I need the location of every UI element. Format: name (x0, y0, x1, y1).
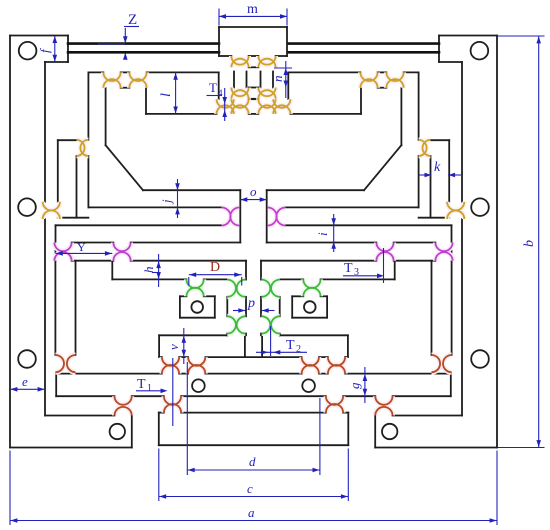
cluster row1 bottom edge (249, 66, 259, 68)
plate left edge (145, 88, 147, 114)
platform top seg3 (343, 412, 348, 414)
hinge beamQ-1 upper arc (mirror) (435, 243, 452, 252)
pad top edge seg2 (204, 295, 215, 297)
rail top line (mirror) (288, 42, 439, 45)
hinge beamQ-1 lower arc (54, 252, 71, 261)
lever inner edge (mirror) (400, 88, 402, 145)
hanger bar left edge (mirror) (451, 261, 453, 355)
cluster col-L hinge upper arc (mirror) (258, 99, 275, 108)
svg-text:o: o (250, 184, 257, 199)
lever diagonal edge (106, 145, 143, 190)
bar R left edge (111, 261, 113, 280)
svg-text:b: b (522, 240, 537, 247)
lever top edge seg3 (147, 71, 219, 73)
svg-text:3: 3 (354, 267, 359, 278)
band bottom seg4 (343, 395, 375, 397)
svg-text:l: l (159, 93, 174, 97)
frame top edge (10, 35, 68, 37)
svg-text:a: a (248, 505, 255, 520)
pad left edge (179, 296, 181, 317)
dimension c line (159, 496, 348, 498)
link2 right edge stub (245, 334, 247, 336)
dimension k line left (419, 174, 432, 176)
input block top edge (219, 26, 287, 28)
hinge slot-end arc b (230, 208, 239, 226)
lever top edge seg2 (121, 71, 130, 73)
svg-text:v: v (166, 344, 181, 350)
bar B1 top edge (mirror) (431, 139, 450, 141)
lever left edge lower (mirror) (418, 156, 420, 208)
svg-text:i: i (315, 232, 330, 236)
beam Q bottom seg1 (mirror) (394, 260, 436, 262)
platform left edge (158, 413, 160, 446)
wall inner edge upper (44, 62, 46, 202)
label T4 leader (224, 88, 226, 121)
clamp block right edge (67, 36, 69, 63)
cluster col-L hinge upper arc (mirror) (258, 56, 275, 65)
dimension Z arrow upper (124, 28, 126, 42)
corner block top edge (45, 415, 115, 417)
hinge lever-top1 upper arc (103, 72, 120, 81)
hinge pad upper arc (187, 279, 204, 288)
cluster col-L hinge lower arc (mirror) (258, 90, 275, 99)
svg-text:n: n (270, 76, 285, 83)
input block bottom seg1 (219, 55, 231, 57)
jaw arm top edge (143, 189, 240, 191)
hinge link2-top arc a (mirror) (271, 280, 280, 297)
svg-text:m: m (247, 2, 258, 17)
hinge S2-1 upper arc (mirror) (328, 357, 345, 366)
tab S1 right edge (mirror) (261, 335, 263, 357)
dimension o line (240, 199, 266, 201)
tab S1 top edge (159, 334, 227, 336)
hinge S2-1 lower arc (162, 365, 179, 374)
hinge S2-2 upper arc (mirror) (302, 357, 319, 366)
hinge T4 upper arc (mirror) (273, 99, 290, 108)
beam Q bottom seg2 (131, 260, 246, 262)
cluster col-L hinge lower arc (231, 59, 248, 68)
pad top edge seg1 (180, 295, 187, 297)
dimension c ext right (347, 449, 349, 502)
svg-text:T: T (344, 261, 353, 276)
hinge link2-top arc a (227, 280, 236, 297)
plate left edge (mirror) (360, 88, 362, 114)
cluster col-L hinge upper arc (231, 99, 248, 108)
svg-text:T: T (286, 338, 295, 353)
mounting hole lower (18, 350, 36, 368)
input block left edge (218, 27, 220, 56)
bar R bottom seg2 (204, 278, 228, 280)
svg-text:2: 2 (296, 344, 301, 355)
link2 right edge mid (mirror) (260, 297, 262, 317)
hinge slot-end arc a (222, 208, 231, 226)
corner block top edge (mirror) (393, 415, 463, 417)
dimension m ext left (218, 9, 220, 26)
tab S1 left edge (158, 335, 160, 357)
beam P bottom seg2 (131, 242, 241, 244)
svg-text:T: T (137, 377, 146, 392)
hinge lever-top1 lower arc (103, 79, 120, 88)
hinge lever-top2 lower arc (mirror) (360, 79, 377, 88)
hinge hanger arc a (55, 355, 64, 372)
beam P bottom seg2 (mirror) (267, 242, 377, 244)
pad top edge seg1 (mirror) (321, 295, 328, 297)
cluster link edge (260, 72, 262, 88)
svg-text:D: D (210, 260, 220, 275)
input block right edge (286, 27, 288, 56)
band top seg2 (179, 373, 188, 375)
center block right edge (mirror) (266, 190, 268, 242)
cluster bottom-bar top edge (249, 98, 259, 100)
hinge hanger arc b (67, 355, 76, 372)
label T2 leader (270, 326, 272, 356)
hinge B1-lever arc a (77, 140, 85, 156)
mounting hole lower (mirror) (471, 350, 489, 368)
beam P bottom seg1 (mirror) (394, 242, 436, 244)
mounting hole corner (110, 424, 125, 439)
hinge lever-top1 lower arc (mirror) (386, 79, 403, 88)
wall inner edge upper (mirror) (461, 62, 463, 202)
hinge T4 lower arc (mirror) (273, 105, 290, 114)
frame bottom edge (mirror) (375, 447, 497, 449)
link2 left edge mid (mirror) (279, 297, 281, 317)
cluster col-L hinge lower arc (231, 105, 248, 114)
corner block right edge (131, 416, 133, 448)
pad bottom edge (mirror) (292, 317, 327, 319)
hinge beamQ-2 upper arc (113, 243, 130, 252)
hinge beamQ-2 upper arc (mirror) (376, 243, 393, 252)
hinge block-band upper arc (115, 396, 132, 405)
hinge beamQ-2 lower arc (113, 252, 130, 261)
svg-text:Z: Z (128, 12, 137, 28)
dimension a ext right (496, 451, 498, 526)
dimension d ext right (319, 398, 321, 475)
hinge block-band upper arc (mirror) (375, 396, 392, 405)
hinge band-platform lower arc (mirror) (326, 404, 343, 413)
frame outer wall (mirror) (496, 36, 498, 448)
hinge B1-lever arc a (mirror) (423, 140, 431, 156)
lever top edge seg2 (mirror) (378, 71, 387, 73)
hinge slot-end arc b (mirror) (268, 208, 277, 226)
platform right edge (347, 413, 349, 446)
pad hole (mirror) (304, 301, 316, 313)
svg-text:h: h (141, 267, 156, 274)
dimension c ext left (158, 449, 160, 502)
label T3 leader (383, 248, 385, 283)
dimension i line (333, 214, 335, 252)
cluster col-L hinge upper arc (mirror) (258, 88, 275, 97)
bar R left edge (mirror) (394, 261, 396, 280)
hinge link2-top arc b (mirror) (262, 280, 271, 297)
dimension l line (175, 72, 177, 114)
S2 top seg5 (345, 356, 348, 358)
hinge lever-top2 upper arc (mirror) (360, 72, 377, 81)
lever left edge upper (mirror) (418, 72, 420, 139)
hinge beamQ-2 lower arc (mirror) (376, 252, 393, 261)
corner block right edge (mirror) (374, 416, 376, 448)
beam P/Q left edge (mirror) (451, 225, 453, 260)
band hole (mirror) (302, 379, 315, 392)
label T1 leader (172, 358, 174, 426)
slot bottom / beam P top (56, 224, 222, 226)
mounting hole middle (18, 198, 36, 216)
bar B1 top edge (58, 139, 77, 141)
S2 top seg3 (205, 356, 301, 358)
jaw arm top edge (mirror) (267, 189, 364, 191)
band left end edge (mirror) (450, 374, 452, 397)
beam Q bottom seg2 (mirror) (261, 260, 376, 262)
platform top seg2 (181, 412, 326, 414)
link2 right edge stub (mirror) (260, 334, 262, 336)
cluster link edge (272, 72, 274, 88)
hinge band-platform upper arc (mirror) (326, 396, 343, 405)
plate/cluster bottom seg1 (146, 113, 217, 115)
dimension b line (538, 36, 540, 448)
rail bottom line (mirror) (288, 51, 439, 54)
dimension D ext left (188, 277, 190, 286)
jaw arm bottom edge / slot top (mirror) (285, 206, 418, 208)
center block right edge (239, 190, 241, 242)
hanger bar right edge (mirror) (431, 261, 433, 355)
cluster row2 bottom edge (249, 98, 259, 100)
hinge pad lower arc (mirror) (303, 288, 320, 297)
dimension b ext bottom (498, 447, 545, 449)
dimension k line right (448, 174, 461, 176)
pad hole (191, 301, 203, 313)
dimension g line (364, 367, 366, 403)
bar B1 left edge (mirror) (448, 140, 450, 202)
cluster link edge (246, 72, 248, 88)
lever diagonal edge (mirror) (364, 145, 401, 190)
S2 top seg4 (319, 356, 328, 358)
dimension D line (189, 274, 242, 276)
hinge link2-bottom arc a (mirror) (271, 316, 280, 333)
bar B1 right edge (76, 156, 78, 218)
lever top edge seg3 (mirror) (288, 71, 360, 73)
hinge link2-bottom arc b (mirror) (262, 316, 271, 333)
pad top edge seg2 (mirror) (292, 295, 303, 297)
dimension v line (183, 328, 185, 364)
plate right edge (218, 72, 220, 99)
hinge band-platform lower arc (164, 404, 181, 413)
beam P/Q left edge (55, 225, 57, 260)
hinge link2-bottom arc a (227, 316, 236, 333)
clamp block right edge (mirror) (438, 36, 440, 63)
platform top seg1 (159, 412, 164, 414)
cluster col-L hinge lower arc (mirror) (258, 105, 275, 114)
dimension p line right (262, 310, 275, 312)
bar R bottom seg1 (mirror) (321, 278, 395, 280)
cluster col-L hinge upper arc (231, 88, 248, 97)
cluster col-L hinge lower arc (231, 90, 248, 99)
dimension p line left (233, 310, 245, 312)
svg-text:e: e (22, 374, 28, 389)
dimension D ext right (241, 277, 243, 286)
hinge S2-2 lower arc (188, 365, 205, 374)
bar B1 left edge (57, 140, 59, 202)
hinge block-band lower arc (mirror) (375, 407, 392, 416)
hinge S2-1 upper arc (162, 357, 179, 366)
svg-text:c: c (247, 481, 253, 496)
mounting hole corner (mirror) (382, 424, 397, 439)
dimension m line (219, 15, 287, 17)
bar R bottom seg2 (mirror) (280, 278, 304, 280)
svg-text:d: d (249, 454, 256, 469)
ledge below wall hinge (mirror) (419, 217, 450, 219)
beam Q bottom seg1 (72, 260, 114, 262)
lever top edge seg1 (mirror) (404, 71, 419, 73)
lever left edge upper (87, 72, 89, 139)
hinge link2-top arc b (237, 280, 246, 297)
beam P bottom seg1 (72, 242, 114, 244)
link2 left edge stub (226, 334, 228, 336)
hinge hanger arc b (mirror) (432, 355, 441, 372)
svg-text:p: p (247, 296, 255, 311)
hinge link2-bottom arc b (237, 316, 246, 333)
hinge beamQ-1 upper arc (54, 243, 71, 252)
hinge T4 upper arc (217, 99, 234, 108)
pad right edge (mirror) (291, 296, 293, 317)
link2 left edge stub (mirror) (279, 334, 281, 336)
band bottom seg3 (181, 395, 326, 397)
link2 right edge mid (245, 297, 247, 317)
hinge S2-2 lower arc (mirror) (302, 365, 319, 374)
band top seg3 (205, 373, 301, 375)
band bottom seg1 (56, 395, 114, 397)
cluster row2 top edge (249, 87, 259, 89)
hinge pad upper arc (mirror) (303, 279, 320, 288)
hinge bar bottom edge (121, 87, 130, 89)
band left end edge (55, 374, 57, 397)
hinge bar bottom edge (mirror) (378, 87, 387, 89)
frame bottom edge (10, 447, 132, 449)
hinge band-platform upper arc (164, 396, 181, 405)
dimension n ext (274, 67, 292, 69)
hinge pad lower arc (187, 288, 204, 297)
slot bottom / beam P top (mirror) (285, 224, 451, 226)
hinge wall-slot lower arc (43, 210, 60, 219)
band top seg4 (319, 373, 328, 375)
S2 top seg1 (159, 356, 162, 358)
lever top edge seg1 (88, 71, 103, 73)
pad left edge (mirror) (326, 296, 328, 317)
mounting hole top (19, 42, 37, 60)
lever left edge lower (87, 156, 89, 208)
cluster link edge (233, 72, 235, 88)
pad bottom edge (180, 317, 215, 319)
hinge B1-lever arc b (80, 140, 88, 156)
band hole (192, 379, 205, 392)
tab S1' top edge (280, 334, 348, 336)
hinge hanger arc a (mirror) (443, 355, 452, 372)
input block bottom seg3 (276, 55, 287, 57)
wall inner edge lower (44, 219, 46, 416)
frame top edge (mirror) (439, 35, 497, 37)
dimension n line (285, 61, 287, 98)
rail bottom line (68, 51, 219, 54)
dimension f (54, 36, 56, 61)
frame outer wall (9, 36, 11, 448)
tab S1 right edge (244, 335, 246, 357)
band bottom seg2 (132, 395, 164, 397)
dimension a line (10, 520, 497, 522)
cluster col-L hinge upper arc (231, 56, 248, 65)
jaw arm bottom edge / slot top (88, 206, 221, 208)
bar R bottom seg1 (112, 278, 186, 280)
bar B1 right edge (mirror) (430, 156, 432, 218)
clamp block bottom edge (mirror) (439, 61, 462, 63)
wall inner edge lower (mirror) (461, 219, 463, 416)
mounting hole top (mirror) (471, 42, 489, 60)
dimension Z arrow lower (124, 53, 126, 59)
hanger bar left edge (54, 261, 56, 355)
hinge T4 lower arc (217, 105, 234, 114)
lever inner edge (105, 88, 107, 145)
dimension j line (177, 179, 179, 218)
cluster col-L hinge lower arc (mirror) (258, 59, 275, 68)
svg-text:k: k (434, 160, 441, 175)
band top seg1 (56, 373, 162, 375)
hinge block-band lower arc (115, 407, 132, 416)
hinge wall-slot upper arc (43, 202, 60, 211)
tab S1 left edge (mirror) (347, 335, 349, 357)
dimension b ext top (498, 35, 545, 37)
S2 top seg2 (179, 356, 188, 358)
link2 right edge upper (mirror) (260, 261, 262, 280)
svg-text:T: T (209, 80, 217, 95)
dimension Y line (55, 252, 112, 254)
plate/cluster bottom seg2 (249, 113, 259, 115)
plate/cluster bottom seg3 (290, 113, 361, 115)
rail top line (68, 42, 219, 45)
hinge lever-top2 upper arc (129, 72, 146, 81)
pad right edge (214, 296, 216, 317)
svg-text:1: 1 (147, 383, 152, 394)
dimension h line (158, 254, 160, 287)
svg-text:g: g (347, 382, 362, 389)
ledge below wall hinge (58, 217, 89, 219)
hanger bar right edge (75, 261, 77, 355)
band bottom seg5 (393, 395, 451, 397)
svg-text:4: 4 (218, 88, 223, 98)
dimension a ext left (9, 451, 11, 526)
link2 left edge mid (226, 297, 228, 317)
hinge slot-end arc a (mirror) (276, 208, 285, 226)
dimension d ext left (186, 362, 188, 475)
hinge B1-lever arc b (mirror) (419, 140, 427, 156)
clamp block bottom edge (45, 61, 68, 63)
hinge beamQ-1 lower arc (mirror) (435, 252, 452, 261)
hinge lever-top2 lower arc (129, 79, 146, 88)
mounting hole middle (mirror) (471, 198, 489, 216)
plate right edge (mirror) (287, 72, 289, 99)
platform bottom edge (159, 444, 348, 446)
dimension e line (10, 388, 45, 390)
svg-text:Y: Y (77, 240, 86, 254)
band top seg5 (345, 373, 451, 375)
input block bottom seg2 (249, 55, 259, 57)
hinge S2-1 lower arc (mirror) (328, 365, 345, 374)
link2 right edge upper (245, 261, 247, 280)
hinge wall-slot lower arc (mirror) (447, 210, 464, 219)
hinge wall-slot upper arc (mirror) (447, 202, 464, 211)
hinge lever-top1 upper arc (mirror) (386, 72, 403, 81)
dimension m ext right (286, 9, 288, 26)
hinge S2-2 upper arc (188, 357, 205, 366)
dimension d line (187, 469, 320, 471)
